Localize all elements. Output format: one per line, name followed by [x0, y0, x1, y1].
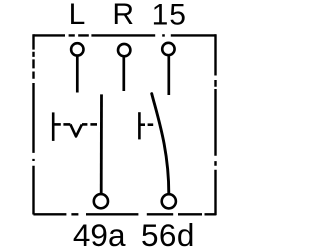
enclosure boundary bottom edge (dash-dot): [33, 213, 216, 215]
terminal 56d (circle): [162, 194, 176, 208]
wire stem from terminal R: [122, 57, 125, 91]
svg-text:56d: 56d: [141, 217, 195, 250]
wire stem from terminal L: [76, 56, 79, 93]
actuator T-bar of switch S1: [52, 112, 55, 140]
linkage dash 2 of S2: [148, 123, 154, 126]
svg-text:15: 15: [152, 0, 187, 32]
terminal R (circle): [118, 44, 130, 56]
linkage dash 1 of S1: [53, 123, 61, 126]
switch lever S2 (contact arm from 56d toward 15): [152, 94, 169, 194]
terminal 49a (circle): [94, 194, 108, 208]
enclosure boundary right edge (dash-dot): [214, 34, 216, 215]
enclosure boundary left edge (dash-dot): [32, 34, 34, 214]
svg-text:49a: 49a: [73, 217, 126, 250]
linkage dash 2 of S1: [63, 123, 70, 126]
actuator T-bar of switch S2: [138, 112, 141, 139]
detent notch (v) of S1 linkage: [70, 124, 82, 136]
terminal L (circle): [71, 43, 83, 55]
moving contact bar of switch S1 (bridges L/R to 49a): [100, 94, 103, 193]
svg-text:L: L: [69, 0, 86, 31]
terminal 15 (circle): [162, 43, 174, 55]
linkage dash 1 of S2: [139, 123, 145, 126]
enclosure boundary top edge (dash-dot): [33, 34, 216, 36]
svg-text:R: R: [112, 0, 134, 31]
linkage dash 4 of S1: [90, 123, 97, 126]
wire stem from terminal 15: [167, 55, 170, 95]
linkage dash 3 of S1: [82, 123, 87, 126]
